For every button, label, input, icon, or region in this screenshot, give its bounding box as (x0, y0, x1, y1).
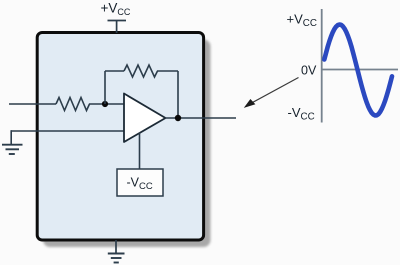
node: output junction dot (175, 115, 181, 121)
svg-text:+VCC: +VCC (287, 12, 317, 29)
svg-text:+VCC: +VCC (101, 1, 131, 18)
waveform horizontal axis (0V) (322, 69, 398, 71)
+VCC supply tap (T bar and stem) (108, 21, 127, 34)
wire: negative supply stem from op-amp (139, 133, 141, 170)
node: inverting input junction dot (102, 101, 108, 107)
ground (bottom chassis ground) (108, 254, 125, 263)
wire: non-inverting input drop to ground (10, 130, 12, 144)
output sine waveform (324, 25, 392, 116)
amplifier block body (37, 33, 203, 241)
annotation arrow from waveform to output (252, 78, 299, 104)
wire: feedback top-left segment (105, 70, 124, 72)
wire: output line (165, 117, 236, 119)
svg-text:-VCC: -VCC (288, 105, 315, 122)
wire: resistor to inverting input (89, 103, 124, 105)
resistor Rin (input resistor) (56, 98, 90, 111)
op-amp U1 (124, 94, 166, 143)
wire: feedback left vertical (104, 71, 106, 104)
resistor Rf (feedback resistor) (124, 65, 158, 77)
svg-text:0V: 0V (301, 64, 317, 78)
wire: bottom ground stem (115, 240, 117, 253)
waveform vertical axis (321, 9, 323, 123)
wire: feedback top-right segment (157, 70, 178, 72)
wire: non-inverting input line (11, 130, 124, 132)
amplifier block shadow (43, 40, 211, 248)
ground (input ground symbol) (2, 145, 23, 154)
-VCC supply box (117, 169, 163, 196)
wire: feedback right vertical to output node (177, 71, 179, 118)
wire: input signal line (9, 103, 56, 105)
